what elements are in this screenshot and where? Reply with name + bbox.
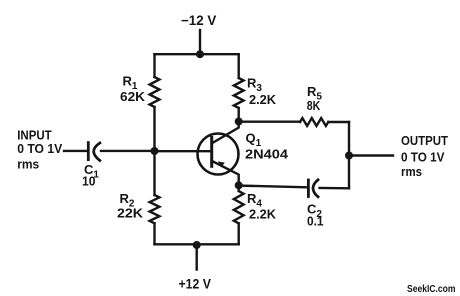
wire: left rail lower segment [153,223,155,244]
svg-text:0.1: 0.1 [307,214,324,229]
wire: R4 to bottom rail [237,223,239,244]
wire: R5 to right rail corner [328,121,349,123]
wire: top rail [155,53,239,55]
resistor R1 [150,77,160,107]
svg-text:SeekIC.com: SeekIC.com [407,284,456,295]
svg-text:2N404: 2N404 [245,146,289,161]
wire: C2 to right rail [320,187,349,190]
svg-text:−12 V: −12 V [181,13,216,28]
wire: left rail middle segment [153,107,155,195]
wire: bottom rail [155,243,239,245]
transistor Q1 emitter arrow [218,161,225,167]
wire: input lead [64,150,87,152]
transistor Q1 base bar [210,138,213,167]
transistor Q1 body [198,134,239,175]
wire: C1 to base node [101,150,155,152]
wire: -12V supply stub [199,30,201,54]
wire: middle rail top segment [237,54,239,78]
wire: collector node to R5 [239,120,300,122]
transistor Q1 collector lead [212,122,239,144]
resistor R3 [234,78,244,108]
svg-text:rms: rms [401,164,422,179]
node: collector junction [235,118,243,126]
resistor R5 [300,118,328,126]
wire: emitter node to C2 [239,186,307,188]
junction: input/base node [151,147,159,155]
svg-text:22K: 22K [117,206,144,221]
wire: right rail [348,122,350,188]
svg-text:62K: 62K [120,89,146,104]
wire: base lead [155,150,212,152]
wire: R3 to collector node [237,108,239,122]
svg-text:2.2K: 2.2K [249,207,277,222]
resistor R2 [150,195,160,223]
resistor R4 [234,191,244,223]
svg-text:OUTPUT: OUTPUT [401,133,448,148]
svg-text:rms: rms [17,156,39,171]
capacitor C1 plates [88,143,100,161]
svg-text:0 TO 1V: 0 TO 1V [17,141,62,156]
transistor Q1 emitter lead [212,161,239,186]
svg-text:+12 V: +12 V [179,276,212,291]
svg-text:2.2K: 2.2K [249,92,277,107]
svg-text:10: 10 [82,173,96,188]
capacitor C2 plates [308,180,318,197]
wire: left rail upper segment [153,54,155,77]
wire: emitter node to R4 [237,186,239,191]
svg-text:8K: 8K [307,98,321,113]
wire: output lead [349,154,393,156]
svg-text:0 TO 1V: 0 TO 1V [401,150,445,165]
node: output junction [345,152,353,160]
junction: top rail to -12V [196,50,204,58]
junction: bottom rail to +12V [193,241,201,249]
node: emitter junction [235,181,243,189]
wire: +12V supply stub [195,244,197,269]
